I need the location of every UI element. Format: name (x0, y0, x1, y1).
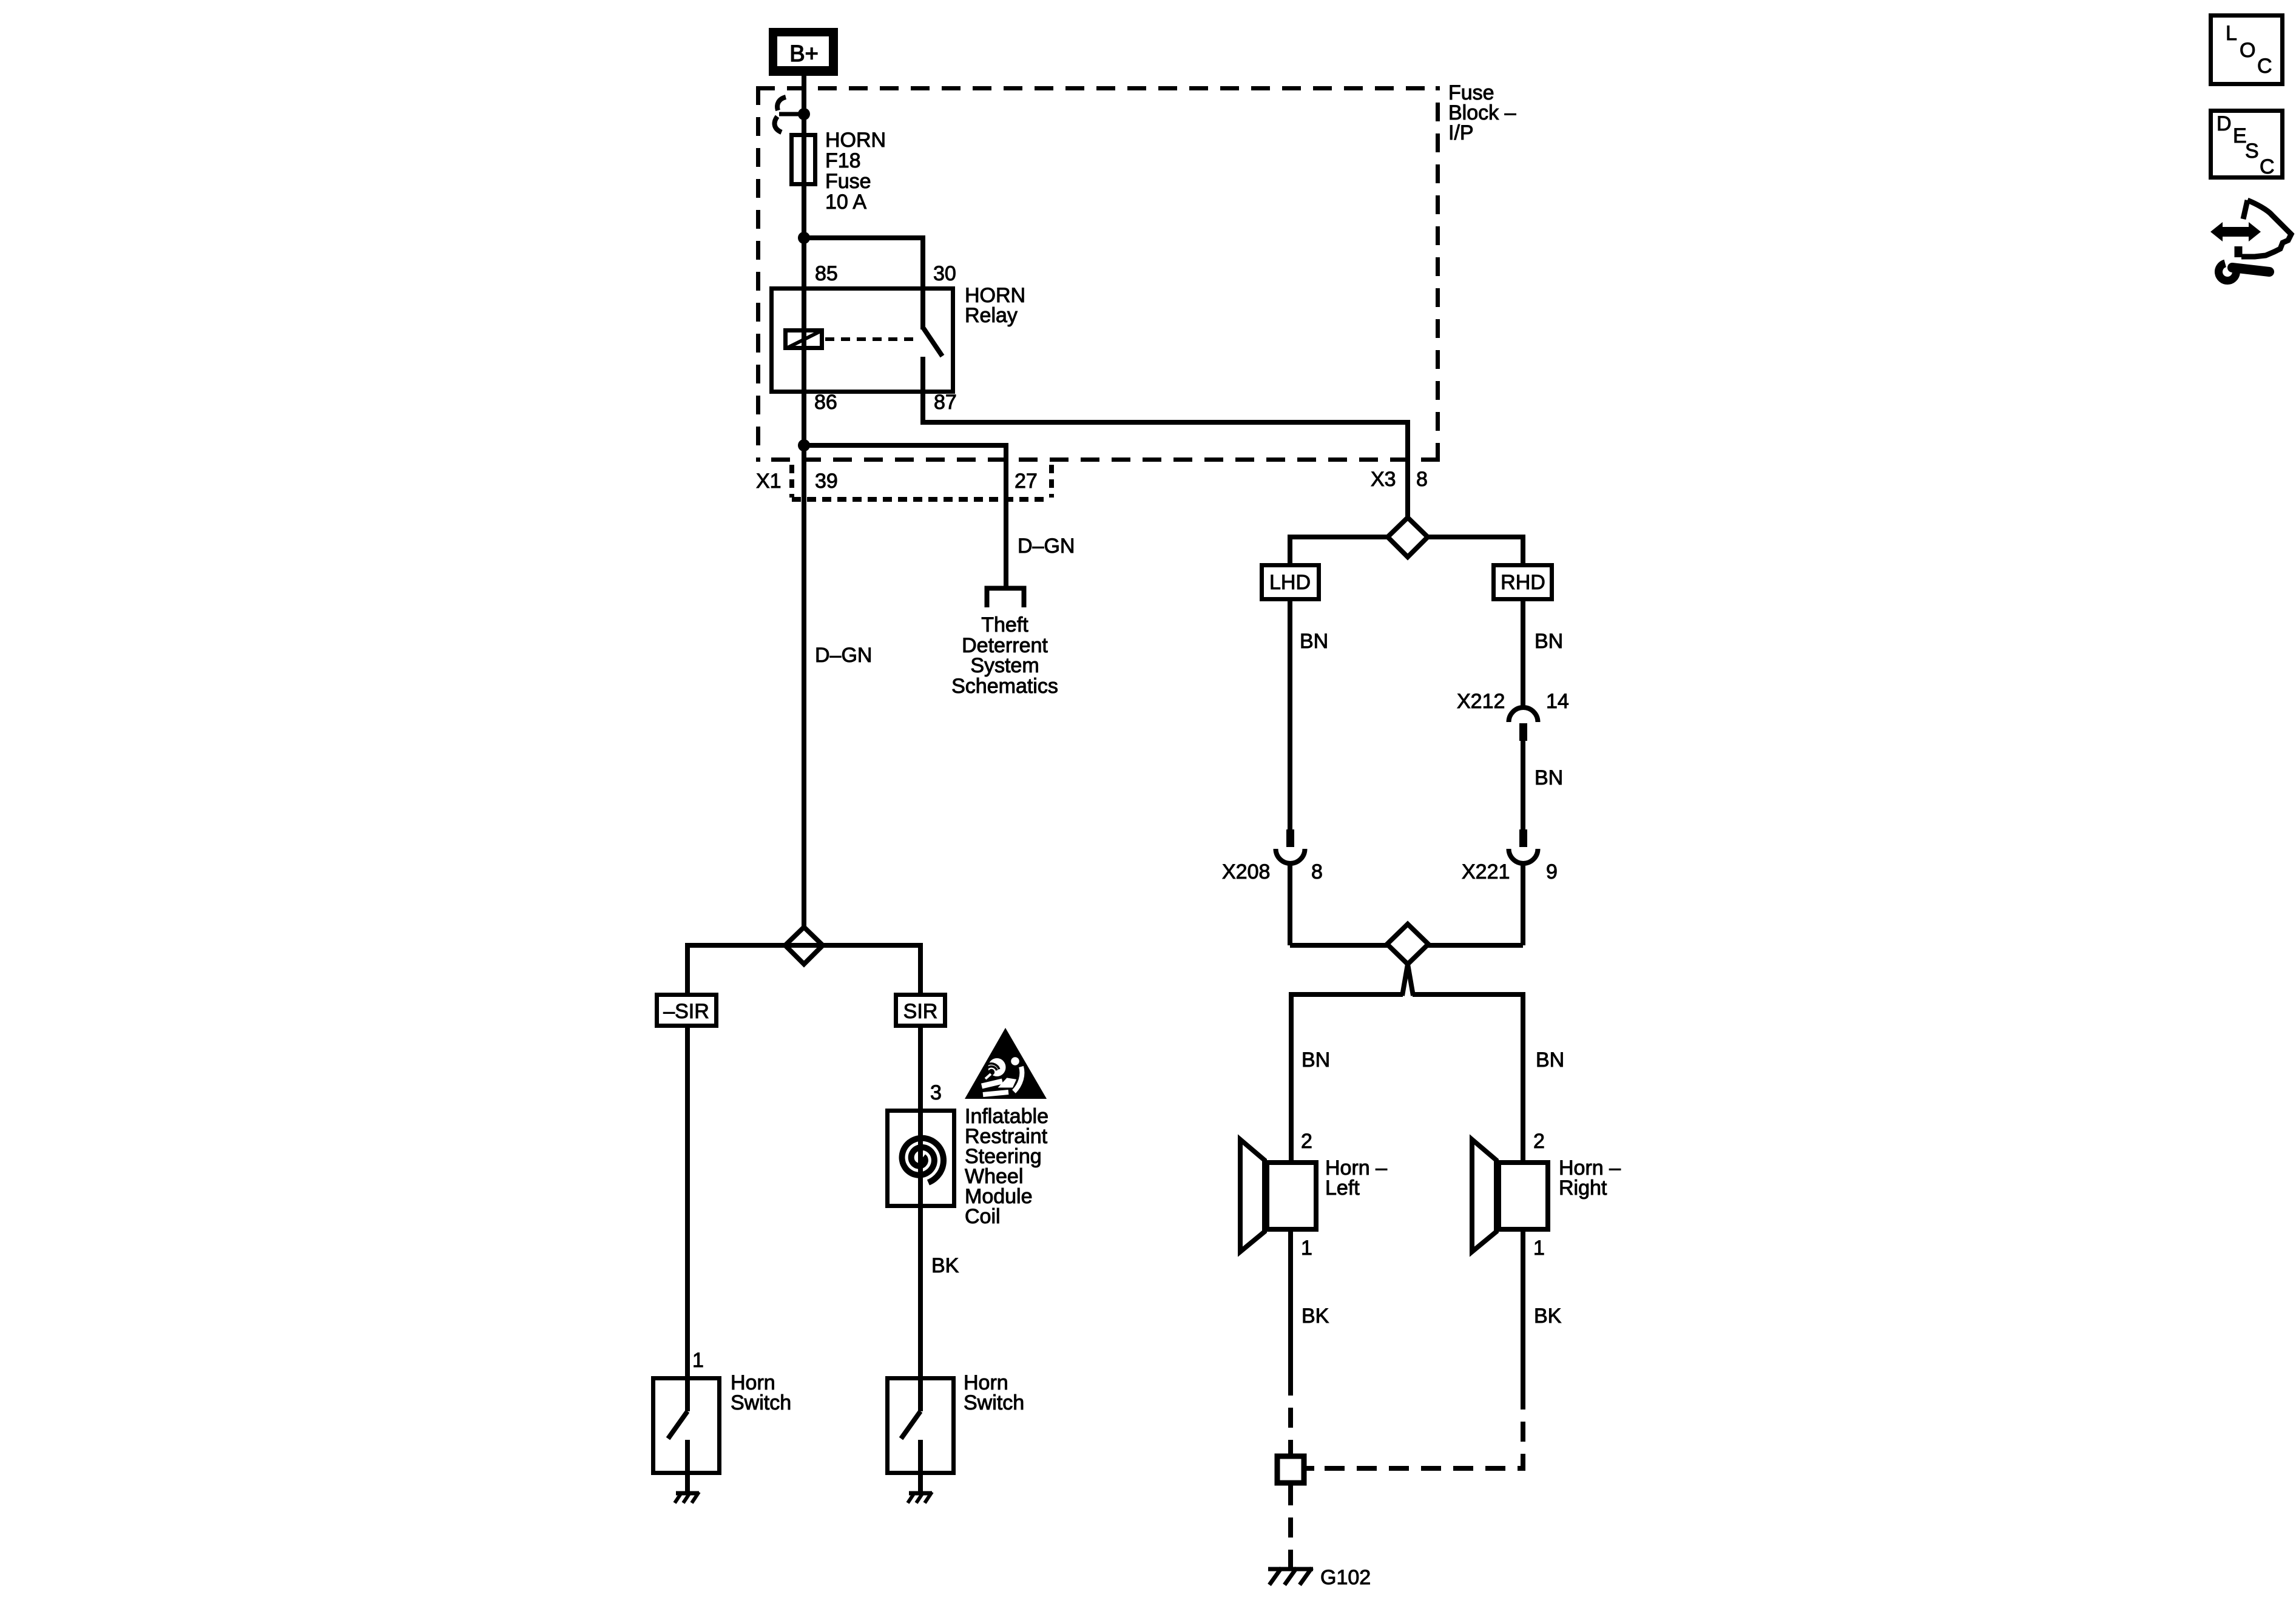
ground symbol (left horn switch) (675, 1492, 699, 1503)
Inflatable Restraint Steering Wheel Module Coil label (965, 1105, 1048, 1228)
relay switch pin30 stub (920, 286, 925, 329)
svg-text:14: 14 (1546, 690, 1569, 713)
wire splice to -SIR / SIR risers (687, 945, 920, 993)
wire LHD to X208 (1288, 599, 1292, 829)
wire X212 to X221 (1521, 741, 1525, 829)
svg-text:BK: BK (1302, 1305, 1329, 1328)
svg-text:BK: BK (931, 1254, 959, 1277)
svg-text:85: 85 (815, 262, 838, 285)
svg-text:BK: BK (1534, 1305, 1562, 1328)
LHD box (1262, 565, 1319, 599)
diagnostic icon wrench (2218, 263, 2269, 281)
svg-text:Fuse: Fuse (825, 170, 871, 193)
svg-text:D–GN: D–GN (815, 644, 872, 667)
svg-text:Switch: Switch (731, 1391, 791, 1414)
clockspring spiral (902, 1138, 944, 1183)
wire pin 86 down to splice diamond (802, 238, 806, 928)
svg-text:10 A: 10 A (825, 191, 866, 214)
svg-text:O: O (2240, 39, 2255, 62)
wire SIR to coil to horn switch (918, 1028, 923, 1376)
svg-text:Schematics: Schematics (951, 675, 1058, 698)
svg-text:9: 9 (1546, 860, 1558, 883)
svg-text:BN: BN (1536, 1048, 1564, 1072)
connector X212 label (1457, 690, 1505, 713)
svg-text:S: S (2245, 140, 2259, 163)
SIR box (896, 995, 945, 1026)
wire splice pack to G102 (dashed) (1288, 1485, 1293, 1573)
svg-text:Relay: Relay (965, 304, 1018, 327)
svg-text:1: 1 (1533, 1237, 1545, 1260)
in-line connector X212 (1509, 707, 1538, 741)
junction node at B+ feed (798, 108, 810, 120)
splice diamond (horns) (1387, 924, 1428, 964)
bus clip symbol (775, 97, 801, 132)
svg-text:LHD: LHD (1269, 571, 1311, 594)
svg-text:Coil: Coil (965, 1205, 1001, 1228)
wire label BN (RHD) (1535, 630, 1563, 653)
HORN relay box (772, 289, 953, 392)
svg-text:X212: X212 (1457, 690, 1505, 713)
svg-text:86: 86 (814, 391, 837, 414)
relay actuation dashed link (825, 337, 918, 341)
ground splice pack (1277, 1456, 1314, 1483)
svg-text:Left: Left (1325, 1176, 1360, 1200)
wire label D-GN (horn switch feed) (815, 644, 872, 667)
svg-text:30: 30 (933, 262, 956, 285)
horn switch box (left) (653, 1379, 720, 1473)
wire label BN (horn left) (1302, 1048, 1330, 1072)
horn bus and risers (1291, 994, 1523, 1160)
connector X1 dotted outline (792, 465, 1052, 499)
svg-text:8: 8 (1311, 860, 1323, 883)
svg-text:BN: BN (1300, 630, 1328, 653)
in-line connector X221 (1509, 829, 1538, 863)
wires into lower splice diamond (1290, 863, 1523, 945)
wire B+ down through fuse to relay junction (802, 76, 806, 238)
wire junction to relay pin 30 (804, 238, 923, 286)
svg-text:HORN: HORN (825, 129, 886, 152)
splice diamond (horn switch branch) (785, 927, 823, 964)
svg-text:X221: X221 (1462, 860, 1510, 883)
svg-text:39: 39 (815, 470, 838, 493)
diagnostic icon panel outline (2238, 200, 2291, 257)
svg-text:Right: Right (1559, 1176, 1607, 1200)
relay coil (786, 331, 822, 348)
wire relay pin 87 to X3 pin 8 (923, 357, 1408, 518)
steering wheel module coil box (888, 1111, 954, 1206)
wire label BN (X212-X221) (1535, 766, 1563, 789)
splice V to horn bus (1402, 964, 1413, 996)
wire label BK (coil to switch) (931, 1254, 959, 1277)
svg-text:27: 27 (1015, 470, 1038, 493)
X208 pin 8 label (1311, 860, 1323, 883)
left horn switch pin 1 label (692, 1349, 704, 1372)
svg-text:C: C (2260, 155, 2275, 178)
wire label BK (horn right) (1534, 1305, 1562, 1328)
svg-text:D–GN: D–GN (1018, 535, 1075, 558)
svg-text:SIR: SIR (903, 1000, 938, 1023)
wire label BN (horn right) (1536, 1048, 1564, 1072)
LOC reference box (2211, 16, 2283, 84)
horn right pin 2 label (1533, 1130, 1545, 1153)
horn right pin 1 label (1533, 1237, 1545, 1260)
wire horn right dashed to splice pack (1314, 1389, 1523, 1468)
svg-text:RHD: RHD (1501, 571, 1545, 594)
relay switch blade (923, 328, 942, 356)
junction node above relay (798, 232, 810, 244)
svg-text:87: 87 (934, 391, 957, 414)
svg-text:System: System (970, 654, 1039, 677)
horn switch contacts (left) (668, 1376, 687, 1491)
horn left pin 1 label (1301, 1237, 1312, 1260)
pin 87 label (934, 391, 957, 414)
Horn - Right label (1559, 1156, 1621, 1200)
svg-text:D: D (2217, 112, 2232, 135)
svg-text:–SIR: –SIR (663, 1000, 709, 1023)
wire horn left dashed to splice pack (1288, 1376, 1293, 1454)
X1 pin 39 label (815, 470, 838, 493)
svg-text:8: 8 (1416, 468, 1428, 491)
connector X3 label (1371, 468, 1396, 491)
pin 30 label (933, 262, 956, 285)
ground symbol (right horn switch) (908, 1492, 932, 1503)
svg-text:3: 3 (930, 1081, 942, 1104)
svg-text:2: 2 (1533, 1130, 1545, 1153)
wire RHD to X212 (1521, 599, 1525, 707)
svg-text:BN: BN (1535, 630, 1563, 653)
DESC reference box (2211, 111, 2283, 179)
horn left speaker symbol (1240, 1139, 1316, 1252)
pin 85 label (815, 262, 838, 285)
junction node pin 86 / pin 27 branch (798, 439, 810, 451)
svg-text:BN: BN (1302, 1048, 1330, 1072)
wire label BK (horn left) (1302, 1305, 1329, 1328)
Horn Switch label (right) (964, 1371, 1024, 1414)
svg-text:F18: F18 (825, 149, 861, 172)
svg-text:B+: B+ (789, 41, 819, 67)
X3 pin 8 label (1416, 468, 1428, 491)
svg-text:BN: BN (1535, 766, 1563, 789)
X221 pin 9 label (1546, 860, 1558, 883)
SIR warning triangle (965, 1028, 1047, 1099)
svg-text:1: 1 (1301, 1237, 1312, 1260)
wire horn right pin 1 (solid) (1521, 1232, 1525, 1389)
-SIR box (657, 995, 717, 1026)
horn left pin 2 label (1301, 1130, 1312, 1153)
wire label D-GN (theft branch) (1018, 535, 1075, 558)
Horn Switch label (left) (731, 1371, 791, 1414)
Horn - Left label (1325, 1156, 1387, 1200)
splice diamond (LHD/RHD) (1290, 518, 1523, 563)
svg-text:2: 2 (1301, 1130, 1312, 1153)
svg-text:I/P: I/P (1448, 121, 1474, 144)
svg-text:C: C (2257, 55, 2272, 78)
wire label BN (LHD) (1300, 630, 1328, 653)
ground G102 label (1320, 1566, 1371, 1589)
fuse HORN F18 10A (792, 129, 886, 214)
battery feed B+ (769, 28, 838, 76)
wire -SIR to horn switch (685, 1028, 690, 1376)
horn switch contacts (right) (901, 1376, 920, 1491)
HORN Relay label (965, 284, 1025, 327)
diagnostic icon double arrow (2210, 222, 2261, 241)
Theft Deterrent System Schematics label (951, 613, 1058, 698)
connector X208 label (1222, 860, 1270, 883)
coil pin 3 label (930, 1081, 942, 1104)
svg-text:Theft: Theft (981, 613, 1028, 636)
Fuse Block - I/P label (1448, 81, 1516, 144)
connector X1 label (756, 470, 782, 493)
svg-text:X1: X1 (756, 470, 782, 493)
horn right speaker symbol (1472, 1139, 1548, 1252)
RHD box (1494, 565, 1552, 599)
pin 86 label (814, 391, 837, 414)
svg-text:1: 1 (692, 1349, 704, 1372)
svg-text:X3: X3 (1371, 468, 1396, 491)
svg-text:G102: G102 (1320, 1566, 1371, 1589)
horn switch box (right) (888, 1379, 954, 1473)
svg-text:X208: X208 (1222, 860, 1270, 883)
wire branch to X1 pin 27 (804, 445, 1006, 586)
off-page pointer to theft deterrent (987, 589, 1024, 608)
connector X221 label (1462, 860, 1510, 883)
fuse block I/P dashed enclosure (756, 86, 1440, 462)
svg-text:L: L (2226, 22, 2237, 45)
svg-text:Switch: Switch (964, 1391, 1024, 1414)
wire horn left pin 1 (solid) (1288, 1232, 1293, 1376)
in-line connector X208 (1276, 829, 1305, 863)
ground G102 symbol (1268, 1568, 1313, 1585)
X212 pin 14 label (1546, 690, 1569, 713)
X1 pin 27 label (1015, 470, 1038, 493)
